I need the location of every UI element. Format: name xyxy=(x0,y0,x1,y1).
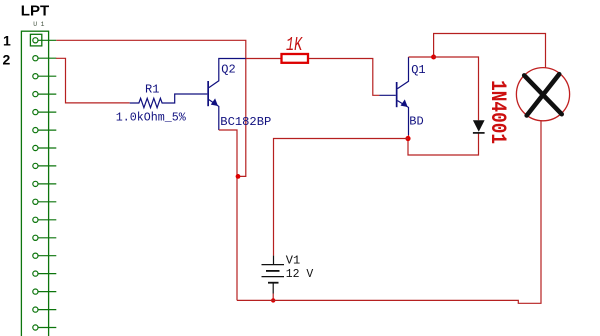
svg-text:1: 1 xyxy=(3,33,11,49)
pin 1 square xyxy=(30,34,41,46)
pin 3 lead xyxy=(38,75,56,77)
wire: Q1 collector to top rail xyxy=(409,34,546,68)
battery V1 plate long bottom xyxy=(262,276,285,278)
junction dot A xyxy=(236,174,241,179)
transistor Q1 collector lead xyxy=(398,57,409,89)
battery V1 plate long top xyxy=(262,264,285,266)
pin 7 lead xyxy=(38,147,56,149)
pin 14 lead xyxy=(38,273,56,275)
battery V1 plate short 1 xyxy=(266,270,280,272)
pin 11 circle xyxy=(33,217,38,222)
wire: 1K to Q1 base xyxy=(309,59,380,96)
svg-text:V1: V1 xyxy=(286,254,300,268)
lamp X1 circle xyxy=(516,68,569,121)
pin 6 lead xyxy=(38,129,56,131)
pin 12 circle xyxy=(33,235,38,240)
pin 4 lead xyxy=(38,93,56,95)
svg-text:12 V: 12 V xyxy=(286,267,314,281)
battery V1 plate short 2 xyxy=(268,282,279,284)
pin 14 circle xyxy=(33,271,38,276)
wire: top rail to diode xyxy=(434,57,479,120)
pin 16 circle xyxy=(33,307,38,312)
wire: battery bottom to bus xyxy=(272,294,274,301)
pin 13 circle xyxy=(33,253,38,258)
pin 2 lead xyxy=(38,57,56,59)
pin 9 circle xyxy=(33,181,38,186)
pin 11 lead xyxy=(38,219,56,221)
junction dot B xyxy=(431,55,436,60)
pin 17 lead xyxy=(38,327,56,329)
transistor Q2 emitter arrow xyxy=(211,98,218,106)
pin 5 lead xyxy=(38,111,56,113)
wire: junction C to battery top xyxy=(274,139,409,256)
svg-text:1.0kOhm_5%: 1.0kOhm_5% xyxy=(116,110,187,124)
transistor Q1 base bar xyxy=(396,82,398,107)
transistor Q2 emitter lead xyxy=(209,100,219,130)
diode D1 cathode bar xyxy=(473,132,485,134)
svg-text:1N4001: 1N4001 xyxy=(485,80,510,144)
pin 5 circle xyxy=(33,110,38,115)
pin 6 circle xyxy=(33,128,38,133)
pin 15 circle xyxy=(33,289,38,294)
pin 13 lead xyxy=(38,255,56,257)
svg-text:Q2: Q2 xyxy=(221,63,235,77)
svg-text:LPT: LPT xyxy=(21,3,49,20)
junction dot C xyxy=(405,136,410,141)
svg-text:R1: R1 xyxy=(145,83,159,97)
resistor 1K body xyxy=(282,54,309,63)
transistor Q1 base lead xyxy=(380,94,396,96)
svg-text:BD: BD xyxy=(409,115,423,129)
pin 2 circle xyxy=(33,56,38,61)
pin 3 circle xyxy=(33,74,38,79)
diode D1 triangle xyxy=(473,120,485,131)
pin 15 lead xyxy=(38,291,56,293)
svg-text:2: 2 xyxy=(3,52,11,68)
junction dot D xyxy=(271,298,275,302)
transistor Q2 base bar xyxy=(207,81,209,106)
svg-text:Q1: Q1 xyxy=(411,63,425,77)
battery V1 bottom lead xyxy=(272,283,274,294)
svg-text:U1: U1 xyxy=(33,21,48,28)
pin 1 lead xyxy=(38,39,56,41)
svg-text:BC182BP: BC182BP xyxy=(220,115,271,129)
resistor 1K wire left xyxy=(246,58,281,60)
wire: diode cathode to emitter junction xyxy=(408,133,479,155)
pin 16 lead xyxy=(38,309,56,311)
pin 10 lead xyxy=(38,201,56,203)
svg-text:1K: 1K xyxy=(286,34,303,56)
pin 1 circle xyxy=(33,38,38,43)
transistor Q1 emitter arrow xyxy=(401,99,408,107)
pin 8 lead xyxy=(38,165,56,167)
pin 10 circle xyxy=(33,199,38,204)
resistor R1 zigzag xyxy=(130,94,208,108)
wire: bottom bus xyxy=(237,121,541,304)
wire: Q2 emitter to bottom bus xyxy=(219,130,237,300)
pin 12 lead xyxy=(38,237,56,239)
wire: Q1 emitter down to junction xyxy=(408,135,410,139)
lamp X1 cross stroke 2 xyxy=(527,74,560,115)
pin 7 circle xyxy=(33,145,38,150)
pin 4 circle xyxy=(33,92,38,97)
transistor Q1 emitter lead xyxy=(398,101,409,135)
wire: pin1 to net junction (top) xyxy=(56,40,246,176)
pin 9 lead xyxy=(38,183,56,185)
pin 17 circle xyxy=(33,325,38,330)
connector U1 body xyxy=(21,31,48,336)
transistor Q2 collector lead xyxy=(209,59,246,88)
lamp X1 cross stroke 1 xyxy=(524,75,562,114)
wire: pin2 to R1 xyxy=(56,58,130,103)
pin 8 circle xyxy=(33,163,38,168)
battery V1 top lead xyxy=(273,256,275,265)
